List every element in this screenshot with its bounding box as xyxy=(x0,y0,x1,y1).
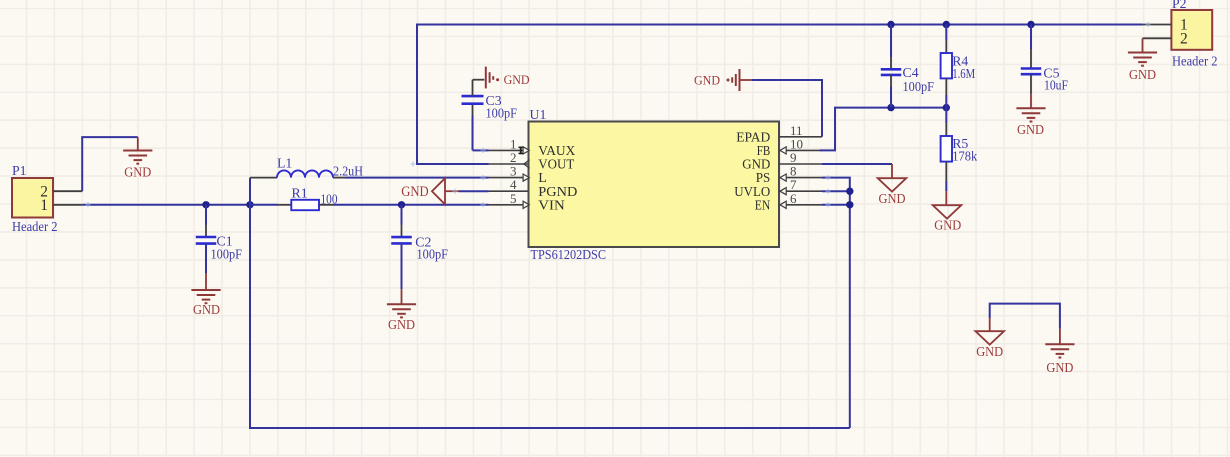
ground (tie, earth) xyxy=(1045,329,1074,375)
junction EN/loop xyxy=(846,201,853,208)
svg-text:GND: GND xyxy=(124,165,151,180)
svg-text:2.2uH: 2.2uH xyxy=(333,163,363,178)
wire UVLO to loop xyxy=(822,190,850,192)
svg-text:GND: GND xyxy=(1129,67,1156,82)
inductor L1 2.2uH xyxy=(250,155,363,178)
ground (P2) xyxy=(1128,38,1157,82)
junction rail/C4 xyxy=(887,21,894,28)
ground (U1 GND pin) xyxy=(878,164,907,206)
svg-text:GND: GND xyxy=(388,317,415,332)
U1 pin 6 (EN) xyxy=(755,191,822,214)
U1 pin 5 (VIN) xyxy=(489,191,565,214)
capacitor C2 100pF xyxy=(391,205,448,304)
svg-text:5: 5 xyxy=(510,191,517,206)
svg-text:GND: GND xyxy=(401,184,429,200)
U1 pin 8 (PS) xyxy=(756,164,822,187)
capacitor C3 100pF xyxy=(462,80,518,151)
U1 pin 11 (EPAD) xyxy=(736,123,822,146)
U1 pin 9 (GND) xyxy=(742,150,822,173)
svg-text:GND: GND xyxy=(504,73,530,87)
svg-text:GND: GND xyxy=(1046,360,1073,375)
svg-text:U1: U1 xyxy=(530,107,547,122)
ground (C1) xyxy=(191,290,220,317)
U1 pin 7 (UVLO) xyxy=(734,177,822,200)
wire ground to U1 pin 4 xyxy=(459,190,489,192)
svg-text:1.6M: 1.6M xyxy=(952,66,975,81)
resistor R1 100 xyxy=(250,186,338,211)
U1 pin 4 (PGND) xyxy=(489,177,578,200)
junction at C2 tap xyxy=(398,201,405,208)
svg-text:10uF: 10uF xyxy=(1044,77,1068,92)
ground (EPAD, rotated) xyxy=(694,69,751,91)
junction at input node xyxy=(246,201,253,208)
ground (P1) xyxy=(123,137,152,179)
svg-text:GND: GND xyxy=(1017,122,1044,137)
svg-text:100pF: 100pF xyxy=(486,105,518,120)
svg-text:P2: P2 xyxy=(1172,0,1187,11)
svg-text:100pF: 100pF xyxy=(211,246,243,261)
svg-text:VIN: VIN xyxy=(538,198,565,213)
svg-text:178k: 178k xyxy=(952,148,977,163)
svg-text:C4: C4 xyxy=(903,65,919,80)
connector P1 (Header 2) xyxy=(12,163,82,234)
svg-text:Header 2: Header 2 xyxy=(12,219,58,234)
svg-text:R1: R1 xyxy=(292,186,308,201)
wire L1 to U1 pin 3 xyxy=(345,177,489,179)
wire FB to divider xyxy=(820,108,946,151)
svg-text:EN: EN xyxy=(755,198,771,213)
ground (C3, rotated) xyxy=(486,67,530,89)
svg-text:L1: L1 xyxy=(277,155,292,170)
wire end markers xyxy=(86,22,1151,207)
wire U1 pin 9 to ground xyxy=(822,163,892,165)
ground (R5) xyxy=(933,191,962,232)
U1 pin 10 (FB) xyxy=(757,136,822,159)
svg-text:GND: GND xyxy=(694,74,720,88)
svg-text:GND: GND xyxy=(934,218,961,233)
svg-text:GND: GND xyxy=(193,302,220,317)
junction at C1 tap xyxy=(202,201,209,208)
wire R1 to U1 pin 5 xyxy=(333,204,489,206)
wire EPAD to ground xyxy=(751,80,822,137)
U1 pin 2 (VOUT) xyxy=(489,150,575,173)
wire EN to loop xyxy=(822,204,850,206)
svg-text:100pF: 100pF xyxy=(903,79,935,94)
wire PS down to bottom loop xyxy=(822,178,850,428)
svg-text:1: 1 xyxy=(40,197,48,214)
svg-text:GND: GND xyxy=(879,191,906,206)
capacitor C5 10uF xyxy=(1021,25,1069,109)
ground (C5) xyxy=(1016,108,1045,137)
junction FB/C4 xyxy=(887,104,894,111)
connector P2 (Header 2) xyxy=(1143,0,1218,68)
resistor R5 178k xyxy=(941,108,978,192)
svg-text:P1: P1 xyxy=(12,163,27,178)
U1 pin 3 (L) xyxy=(489,164,547,187)
svg-text:TPS61202DSC: TPS61202DSC xyxy=(531,247,607,262)
ground (tie, triangle) xyxy=(975,318,1004,359)
junction UVLO/loop xyxy=(846,188,853,195)
op-amp/IC U1 TPS61202DSC body xyxy=(529,107,780,262)
resistor R4 1.6M xyxy=(941,25,976,108)
junction rail/R4 xyxy=(943,21,950,28)
wire node to L1 xyxy=(249,178,251,205)
wire VOUT net: U1 pin 2 to top rail to P2 pin 1 xyxy=(417,25,1143,165)
ground (C2) xyxy=(387,304,416,332)
svg-text:Header 2: Header 2 xyxy=(1172,53,1218,68)
ground (PGND power port) xyxy=(401,178,459,204)
wire bottom feedback loop xyxy=(250,205,850,428)
wire VIN net: P1 pin1 to node xyxy=(82,204,250,206)
U1 pin 1 (VAUX) xyxy=(489,136,576,159)
capacitor C4 100pF xyxy=(881,25,935,108)
junction rail/C5 xyxy=(1027,21,1034,28)
svg-text:2: 2 xyxy=(1180,31,1188,48)
wire ground tie xyxy=(990,304,1060,329)
svg-text:100pF: 100pF xyxy=(417,246,449,261)
svg-text:GND: GND xyxy=(976,344,1003,359)
svg-text:6: 6 xyxy=(790,191,797,206)
capacitor C1 100pF xyxy=(196,205,243,290)
junction FB/R4/R5 xyxy=(943,104,950,111)
wire P1 pin2 to ground xyxy=(82,137,138,191)
